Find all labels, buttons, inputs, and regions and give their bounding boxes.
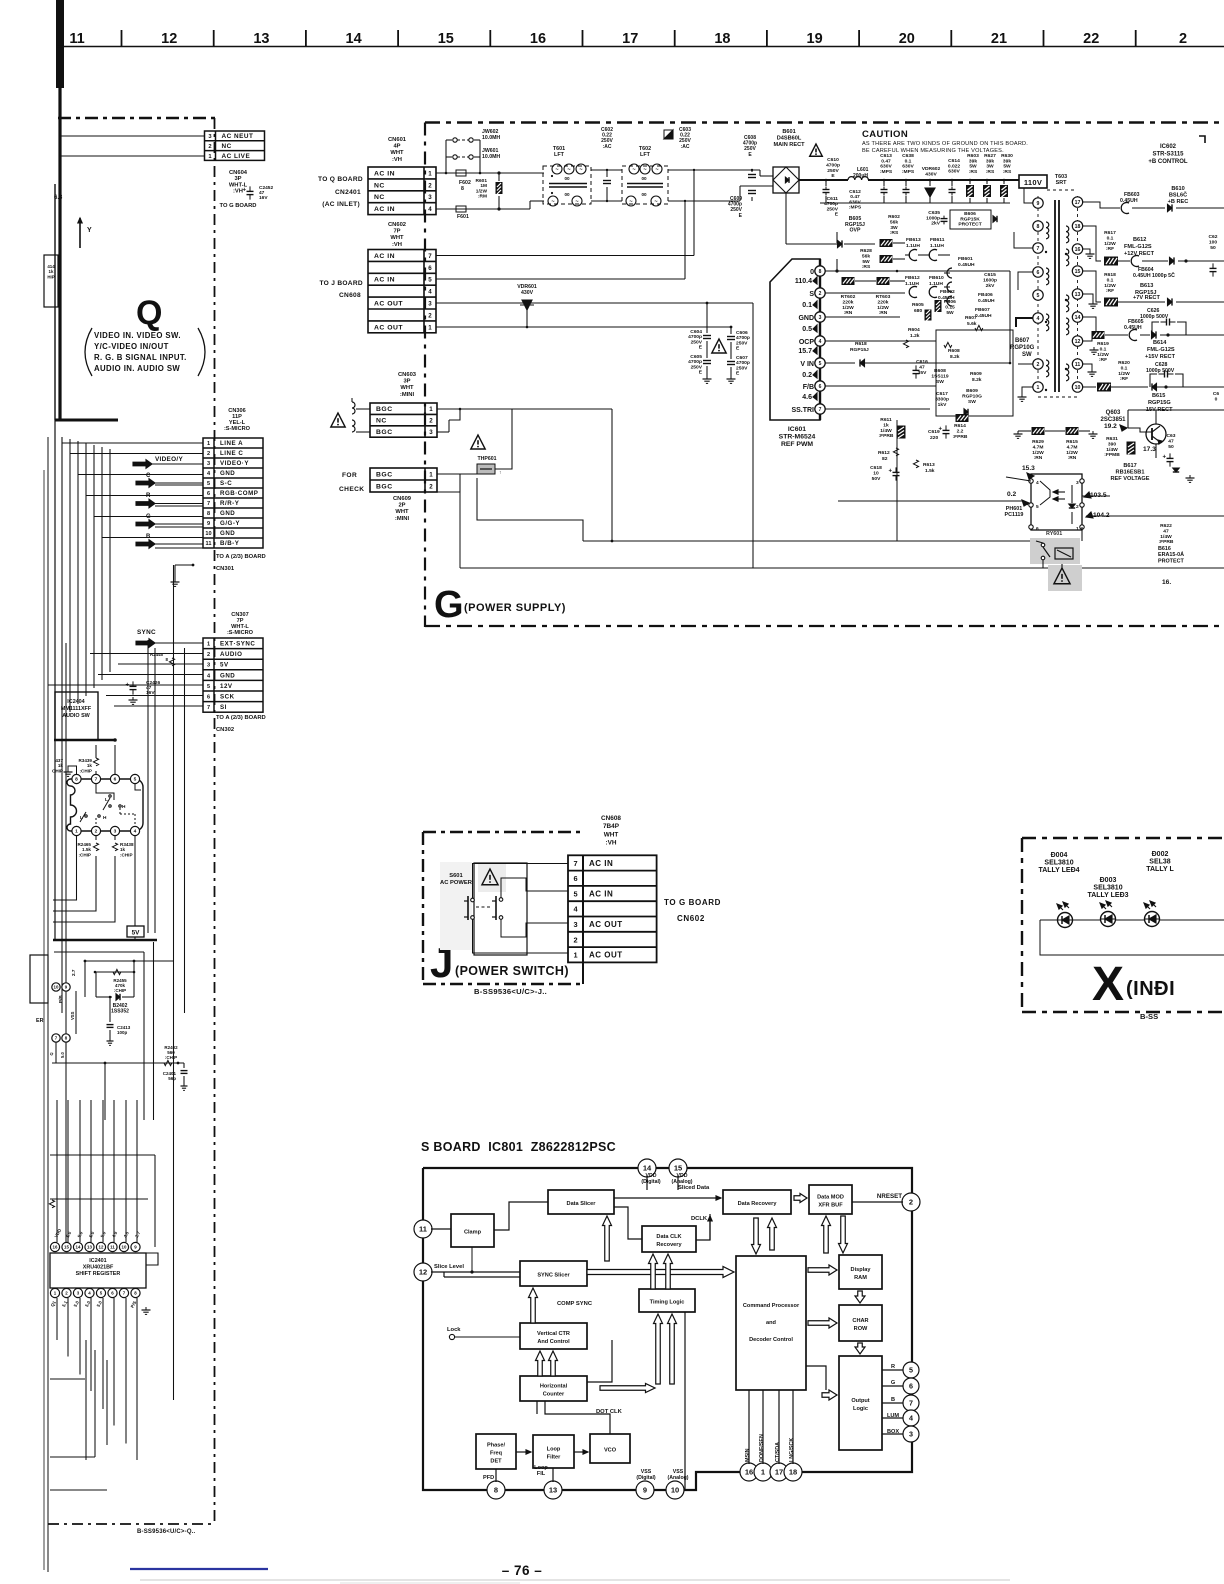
svg-text:B: B (891, 1397, 895, 1403)
svg-text:1000p 500V: 1000p 500V (1146, 368, 1175, 374)
svg-text::CHIP: :CHIP (165, 1055, 177, 1060)
svg-text:7: 7 (1037, 246, 1040, 252)
svg-text:~: ~ (575, 199, 578, 205)
svg-text:250V: 250V (691, 364, 703, 370)
svg-text:1SS352: 1SS352 (111, 1008, 129, 1014)
lower analog block wires (54, 951, 144, 953)
svg-text:20: 20 (899, 31, 915, 47)
svg-text:1: 1 (429, 471, 433, 478)
thermistors RT602 RT603 (842, 277, 855, 285)
svg-text:FOR: FOR (342, 472, 357, 479)
svg-text:50: 50 (1210, 245, 1216, 251)
wire clamp to data slicer (494, 1202, 548, 1230)
svg-text:RGP10G: RGP10G (962, 393, 982, 399)
wire to CN404 pin1 (60, 155, 204, 157)
svg-text:GND: GND (220, 672, 235, 679)
svg-text:BGC: BGC (376, 406, 393, 413)
svg-text:16V: 16V (259, 195, 268, 201)
wire from CN603 to right (511, 409, 513, 441)
svg-text:2: 2 (573, 935, 577, 944)
svg-text:H: H (122, 804, 126, 810)
svg-text:11: 11 (1075, 362, 1081, 368)
svg-text:AC IN: AC IN (589, 859, 613, 868)
svg-text:B-SS9536<U/C>-J..: B-SS9536<U/C>-J.. (474, 987, 547, 996)
svg-text:3: 3 (573, 920, 577, 929)
svg-text::S-MICRO: :S-MICRO (224, 426, 251, 432)
svg-text:4: 4 (1036, 480, 1039, 486)
svg-text:+: + (243, 187, 247, 193)
svg-text:11: 11 (419, 1225, 427, 1234)
hollow arrow into data slicer (603, 1216, 612, 1261)
hollow arrow into data clk recovery (664, 1254, 673, 1289)
wires from CN603 (437, 408, 460, 410)
svg-text:3: 3 (429, 429, 433, 436)
svg-text:1: 1 (761, 1468, 765, 1477)
svg-text:FML-G12S: FML-G12S (1147, 347, 1175, 353)
svg-text:47: 47 (1168, 438, 1174, 444)
svg-text:+B REC: +B REC (1168, 199, 1189, 205)
svg-text:Phase/: Phase/ (487, 1443, 505, 1449)
block Data Recovery (723, 1190, 791, 1214)
svg-text:1/2W: 1/2W (877, 305, 889, 311)
svg-text:E: E (831, 173, 835, 179)
PH601 internal led (1040, 481, 1050, 505)
svg-text::RS: :RS (1003, 169, 1012, 175)
svg-text:VIDEO·Y: VIDEO·Y (220, 460, 249, 467)
svg-text:6: 6 (207, 695, 210, 701)
svg-text:16: 16 (53, 1245, 58, 1250)
warning triangle below relay (1054, 568, 1070, 584)
pin 8 (62, 1034, 70, 1042)
connector CN404 table (205, 131, 265, 160)
pin6 wire (1018, 272, 1033, 290)
svg-text:4P: 4P (393, 144, 400, 150)
svg-text:1SS119: 1SS119 (931, 373, 948, 379)
svg-text:1.1UH: 1.1UH (930, 243, 944, 249)
svg-text:(POWER SWITCH): (POWER SWITCH) (455, 964, 569, 978)
svg-text:Output: Output (851, 1398, 869, 1404)
connector CN601 table (368, 167, 436, 215)
svg-text:B/B-Y: B/B-Y (220, 540, 240, 547)
svg-text:9: 9 (643, 1486, 647, 1495)
block Data MOD XFR BUF (809, 1185, 852, 1214)
rail hanging components (825, 180, 827, 186)
svg-text:B615: B615 (1152, 393, 1165, 399)
svg-text:4: 4 (207, 471, 211, 477)
wire bus long verticals (61, 437, 63, 1013)
svg-text:SHIFT REGISTER: SHIFT REGISTER (76, 1271, 121, 1277)
svg-text:2: 2 (207, 451, 210, 457)
pin4 wire thick (1016, 318, 1033, 327)
svg-text:VDD: VDD (53, 1228, 62, 1239)
wire loop filter to vco (574, 1451, 588, 1453)
svg-text:R629: R629 (1032, 439, 1044, 445)
svg-text:22: 22 (1083, 31, 1099, 47)
svg-text:220k: 220k (878, 299, 889, 305)
svg-text:R614: R614 (954, 423, 966, 429)
Q board description text (85, 328, 92, 376)
svg-text:(AC INLET): (AC INLET) (322, 201, 360, 208)
svg-text:2: 2 (207, 652, 210, 658)
svg-text:P/S: P/S (130, 1300, 138, 1309)
svg-text:4: 4 (428, 206, 432, 213)
svg-text:R: R (146, 493, 151, 499)
svg-text:1.1UH: 1.1UH (906, 243, 920, 249)
svg-text:18: 18 (1075, 224, 1081, 230)
svg-text:E: E (736, 346, 740, 352)
block SYNC Slicer (520, 1261, 587, 1286)
svg-text:110.4: 110.4 (795, 278, 812, 285)
resistor small at left edge (49, 1200, 54, 1208)
svg-text::RF: :RF (1120, 376, 1128, 382)
svg-text:AC POWER: AC POWER (440, 880, 473, 886)
svg-text:10.0MH: 10.0MH (482, 135, 500, 141)
svg-text:50: 50 (1168, 444, 1174, 450)
svg-text:50V: 50V (872, 476, 881, 482)
svg-text:8: 8 (166, 657, 169, 662)
svg-text::MPS: :MPS (902, 169, 915, 175)
svg-text:Counter: Counter (543, 1392, 565, 1398)
svg-text:0.45UH: 0.45UH (958, 262, 975, 268)
svg-text:VCO: VCO (604, 1448, 617, 1454)
svg-text:and: and (766, 1320, 777, 1326)
svg-text:BGC: BGC (376, 471, 393, 478)
transformer T603 dashed frame (1037, 196, 1039, 392)
svg-text:17: 17 (775, 1468, 783, 1477)
svg-text:200uH: 200uH (853, 173, 868, 179)
main B+ rail (799, 179, 848, 181)
resistor R2445 (169, 658, 174, 666)
svg-text:G: G (146, 514, 151, 520)
block Output Logic (839, 1356, 882, 1450)
transformer secondary pins (1072, 197, 1082, 207)
capacitor C604 (706, 303, 708, 333)
svg-text:1: 1 (207, 642, 210, 648)
svg-text:C612: C612 (849, 189, 861, 195)
block Data Slicer (548, 1190, 614, 1214)
svg-text:10: 10 (122, 1245, 127, 1250)
svg-text:1/4W: 1/4W (1160, 534, 1172, 540)
wires from CN609 (437, 473, 477, 475)
svg-text:5.0: 5.0 (99, 1230, 107, 1238)
hollow arrow command to output logic (806, 1366, 826, 1390)
svg-text:FB610: FB610 (929, 275, 944, 281)
svg-text:9: 9 (1037, 201, 1040, 207)
svg-text:And Control: And Control (537, 1339, 570, 1345)
capacitor C603 symbol (664, 130, 673, 139)
svg-text:1: 1 (1037, 385, 1040, 391)
svg-text:C635: C635 (928, 210, 940, 216)
svg-text:G: G (891, 1380, 895, 1386)
wire pin2 (910, 1209, 912, 1211)
svg-text:AC OUT: AC OUT (589, 920, 623, 929)
svg-text:0: 0 (1215, 396, 1218, 402)
svg-text:Display: Display (851, 1267, 872, 1273)
svg-text:+7V RECT: +7V RECT (1133, 295, 1160, 301)
svg-text::MINI: :MINI (400, 392, 415, 398)
svg-text:2.7: 2.7 (134, 1230, 142, 1238)
svg-text:C615: C615 (984, 272, 996, 278)
svg-text:7B4P: 7B4P (603, 823, 620, 830)
svg-text:SW: SW (936, 379, 944, 385)
svg-text:56k: 56k (890, 219, 898, 225)
svg-text:(Analog): (Analog) (671, 1179, 692, 1185)
wire horizontal counter to timing (587, 1340, 612, 1382)
svg-text:14: 14 (346, 31, 362, 47)
hollow arrow data mod down to display ram (839, 1216, 848, 1253)
relay coil box (1055, 548, 1073, 559)
svg-text:4.5: 4.5 (122, 1230, 130, 1238)
partial IC left edge lower (30, 955, 48, 1003)
svg-text:B601: B601 (782, 129, 795, 135)
svg-text:VSS: VSS (70, 1011, 75, 1020)
hollow arrow display ram to char row (855, 1291, 865, 1303)
bottom pins 8 13 9 10 (487, 1481, 505, 1499)
svg-text:6: 6 (1037, 270, 1040, 276)
svg-text:7: 7 (573, 859, 577, 868)
svg-text:CN608: CN608 (601, 815, 621, 822)
svg-text:R605: R605 (912, 302, 924, 308)
svg-text:CHIP: CHIP (52, 768, 63, 773)
svg-text:13: 13 (253, 31, 269, 47)
svg-text:LINE A: LINE A (220, 440, 243, 447)
svg-text:18: 18 (789, 1468, 797, 1477)
svg-text:FIL: FIL (537, 1471, 546, 1477)
svg-text:CT/SDA: CT/SDA (775, 1442, 781, 1462)
svg-text:3P: 3P (234, 176, 241, 182)
secondary 14 +15V (1082, 317, 1096, 335)
svg-text:E: E (699, 345, 703, 351)
svg-text:B610: B610 (1171, 186, 1184, 192)
svg-text:AUDIO SW: AUDIO SW (62, 713, 90, 719)
svg-text:4.6: 4.6 (802, 394, 812, 401)
svg-text:G: G (49, 1051, 55, 1056)
svg-text:7P: 7P (393, 229, 400, 235)
svg-text:8.2k: 8.2k (950, 354, 960, 360)
resistors R629 R615 (1032, 427, 1045, 435)
hollow arrows into timing logic (600, 1384, 655, 1393)
capacitor C605 (706, 341, 708, 358)
svg-text:VIDEO IN. VIDEO SW.: VIDEO IN. VIDEO SW. (94, 331, 181, 340)
svg-text:LFT: LFT (554, 152, 565, 158)
svg-text:SW: SW (1022, 352, 1032, 358)
feedback loop rectangle (936, 330, 1013, 416)
svg-text:P/B: P/B (58, 995, 63, 1003)
optocoupler PH601 box (1031, 474, 1082, 530)
svg-text:Logic: Logic (853, 1406, 868, 1412)
svg-text:4: 4 (134, 829, 137, 835)
svg-text:3: 3 (114, 829, 117, 835)
svg-text::RS: :RS (862, 264, 871, 270)
svg-text:R631: R631 (1106, 436, 1118, 442)
svg-text:CN601: CN601 (388, 137, 407, 143)
svg-text:4700p: 4700p (688, 334, 702, 340)
svg-text:F/B: F/B (803, 384, 814, 391)
X board bottom edge dash-dot (1022, 1011, 1224, 1013)
warning triangle J board (482, 869, 498, 885)
hollow arrow data recovery down (752, 1218, 761, 1254)
svg-text:5: 5 (819, 361, 822, 367)
svg-text:ERA15-0Á: ERA15-0Á (1158, 551, 1184, 558)
wire vco dot clk (545, 1401, 610, 1434)
svg-text:15: 15 (64, 1245, 69, 1250)
resistor R2402 (164, 1060, 172, 1065)
svg-text:SCK: SCK (220, 694, 235, 701)
svg-text:4.7M: 4.7M (1033, 444, 1044, 450)
svg-text:C616: C616 (916, 359, 928, 365)
svg-text:220k: 220k (843, 299, 854, 305)
block Phase/Freq DET (476, 1434, 516, 1469)
pin 11 (414, 1220, 432, 1238)
svg-text:(POWER SUPPLY): (POWER SUPPLY) (464, 602, 566, 614)
svg-text:17.3: 17.3 (1143, 446, 1156, 453)
svg-text:CN602: CN602 (388, 222, 406, 228)
PH601 wires (1006, 477, 1031, 481)
wire pin12 slice level (431, 1271, 520, 1273)
hollow arrow comp sync (529, 1288, 538, 1323)
svg-text:7: 7 (819, 407, 822, 413)
svg-text:0.1: 0.1 (905, 158, 912, 164)
PH601 internal diode (1069, 504, 1075, 508)
svg-text:6.3: 6.3 (54, 195, 63, 201)
wire CN601 pin1 to fuse (436, 172, 452, 174)
svg-text:7: 7 (909, 1399, 913, 1408)
svg-text:630V: 630V (849, 199, 861, 205)
svg-text:Data Recovery: Data Recovery (738, 1201, 778, 1207)
secondary 12 (1082, 335, 1092, 341)
svg-text:1: 1 (208, 154, 212, 160)
block Timing Logic (639, 1289, 695, 1312)
svg-text:8: 8 (494, 1486, 498, 1495)
wire timing logic down (684, 1312, 686, 1489)
long verticals right side (173, 565, 175, 1400)
svg-text:OCP: OCP (799, 339, 815, 346)
svg-text:CN604: CN604 (229, 170, 248, 176)
svg-text:THP601: THP601 (477, 456, 496, 462)
svg-text:3W: 3W (986, 164, 994, 170)
bottom pins 16 1 17 18 (740, 1463, 758, 1481)
svg-text:PC1119: PC1119 (1005, 512, 1024, 518)
svg-text:6: 6 (207, 491, 210, 497)
svg-text:TO A (2/3) BOARD: TO A (2/3) BOARD (216, 715, 266, 721)
svg-text:G: G (434, 584, 464, 626)
svg-text:Data CLK: Data CLK (656, 1234, 681, 1240)
svg-text:LUM: LUM (887, 1413, 899, 1419)
svg-text:2: 2 (1076, 504, 1079, 510)
svg-text:5.0: 5.0 (88, 1230, 96, 1238)
wire pin11 to clamp (431, 1228, 451, 1230)
LED D003 (1101, 912, 1116, 927)
svg-text:1: 1 (428, 324, 432, 331)
ruler line (57, 46, 1224, 48)
svg-text:REF VOLTAGE: REF VOLTAGE (1111, 476, 1150, 482)
wires pins down (55, 1042, 57, 1063)
svg-text:RB16ESB1: RB16ESB1 (1116, 470, 1145, 476)
J board left edge dash-dot (422, 832, 424, 984)
svg-text:R603: R603 (967, 153, 979, 159)
svg-text:GND: GND (220, 510, 235, 517)
svg-text:18: 18 (714, 31, 730, 47)
svg-text:R613: R613 (923, 462, 935, 468)
svg-text:Command Processor: Command Processor (743, 1303, 800, 1309)
svg-text:17: 17 (622, 31, 638, 47)
svg-text:B616: B616 (1158, 546, 1171, 552)
svg-text:Timing Logic: Timing Logic (650, 1300, 685, 1306)
capacitor C2452 (249, 186, 251, 191)
svg-text:C62: C62 (1209, 234, 1218, 240)
capacitor C2401 (183, 1063, 185, 1068)
svg-text:5.0: 5.0 (60, 1052, 65, 1058)
capacitor C607 (730, 342, 732, 359)
svg-text:R607: R607 (965, 315, 977, 321)
svg-text:+: + (1163, 454, 1167, 460)
svg-text:OVP: OVP (850, 228, 861, 234)
svg-text:C: C (146, 473, 151, 479)
svg-text:HIP: HIP (47, 274, 54, 279)
Q board right edge dash-dot (214, 118, 216, 1524)
svg-text:AUDIO: AUDIO (220, 651, 242, 658)
svg-text:8: 8 (461, 186, 464, 192)
svg-text:0.2: 0.2 (1007, 491, 1016, 498)
J board right edge (582, 855, 584, 984)
svg-text:2: 2 (428, 312, 432, 319)
ic edge line (75, 991, 77, 1034)
svg-text:4: 4 (573, 905, 578, 914)
svg-text:5: 5 (573, 889, 577, 898)
svg-text:Horizontal: Horizontal (540, 1384, 568, 1390)
svg-text:E: E (736, 371, 740, 377)
svg-text:3W: 3W (890, 225, 898, 231)
svg-text:BSL6Č: BSL6Č (1169, 191, 1187, 198)
svg-text:~: ~ (579, 167, 582, 173)
svg-text:Decoder Control: Decoder Control (749, 1337, 793, 1343)
svg-text:WHT: WHT (390, 150, 404, 156)
jumper JW602 (453, 155, 457, 159)
svg-text:15: 15 (438, 31, 454, 47)
svg-text:XFR BUF: XFR BUF (818, 1203, 843, 1209)
svg-text::VH: :VH (605, 840, 616, 847)
cap stack symbols (947, 268, 952, 278)
svg-text::MPS: :MPS (849, 205, 862, 211)
svg-text:(INÐI: (INÐI (1126, 978, 1175, 1000)
wire loop filter down (552, 1468, 554, 1482)
svg-text:V IN: V IN (800, 361, 814, 368)
Q board top edge dash-dot (58, 117, 215, 120)
svg-text:6: 6 (573, 874, 577, 883)
svg-text:CN301: CN301 (216, 566, 235, 572)
svg-text::FPRB: :FPRB (953, 434, 968, 440)
svg-text:14: 14 (76, 1245, 81, 1250)
main AC wires to mid (436, 255, 694, 257)
svg-text:2: 2 (819, 291, 822, 297)
svg-text:250V: 250V (736, 340, 748, 346)
signal arrow B (136, 540, 155, 549)
svg-text:C618: C618 (870, 465, 882, 471)
svg-text:2: 2 (909, 1198, 913, 1207)
svg-text:1M: 1M (480, 183, 487, 189)
svg-text:2SC3851: 2SC3851 (1100, 417, 1126, 423)
svg-text:21: 21 (991, 31, 1007, 47)
svg-text:IC602: IC602 (1160, 144, 1177, 150)
svg-text:↑: ↑ (499, 470, 502, 476)
svg-text:1: 1 (429, 406, 433, 413)
svg-text:B-SŜ: B-SŜ (1140, 1012, 1158, 1021)
svg-text:AC OUT: AC OUT (374, 300, 403, 307)
wire T602 to bridge (668, 169, 760, 171)
svg-text:SI: SI (220, 704, 227, 711)
svg-text:Ð003: Ð003 (1100, 877, 1117, 884)
svg-text:R609: R609 (970, 371, 982, 377)
